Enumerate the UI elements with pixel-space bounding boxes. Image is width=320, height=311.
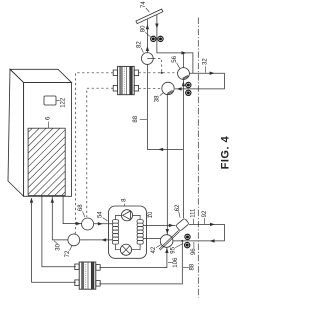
label 68 bbox=[78, 204, 85, 217]
label 6 bbox=[45, 116, 51, 128]
arrow into unit (upper left line) bbox=[98, 222, 103, 225]
dashed line: upper-left exchanger port to pump 72 bbox=[74, 73, 113, 234]
label 80 bbox=[141, 25, 151, 37]
label 54 bbox=[98, 211, 108, 221]
dashed line: upper-right exchanger port to pump 56 bbox=[139, 72, 178, 74]
arrow up into pump 56 bbox=[182, 81, 185, 86]
svg-text:30: 30 bbox=[56, 243, 62, 250]
label 56 bbox=[172, 55, 180, 68]
arrow left into pump 38 bbox=[177, 87, 182, 90]
arrow left on cross line bbox=[158, 148, 163, 151]
port stub lower-left (bottom hx) bbox=[75, 280, 79, 286]
svg-text:122: 122 bbox=[60, 97, 66, 108]
coil (right heat exchanger coil) bbox=[137, 220, 143, 244]
coil 54 (left heat exchanger coil) bbox=[112, 220, 118, 244]
valve pair 95 lower ring bbox=[185, 242, 190, 247]
wire: unit to pump 72 (lower left line) bbox=[80, 239, 113, 241]
mixing valve 42 bbox=[160, 235, 173, 248]
wire: supply loop to radiators bbox=[173, 224, 225, 241]
port stub lower-left bbox=[113, 85, 117, 91]
wire: unit supply to pipe 62 bbox=[143, 224, 175, 226]
label 88 (lower) bbox=[183, 263, 195, 270]
wire: lower exchanger to valve 42 bottom bbox=[99, 248, 166, 268]
port stub upper-left bbox=[113, 70, 117, 76]
label 38 bbox=[154, 93, 163, 102]
svg-text:38: 38 bbox=[154, 95, 160, 102]
plate heat exchanger (bottom) bbox=[79, 262, 96, 289]
wire: unit return to valve 42 bbox=[143, 237, 160, 239]
label 62 bbox=[175, 204, 181, 218]
wire: box to lower exchanger left-bottom port bbox=[32, 198, 76, 282]
unit internal piping bbox=[116, 215, 141, 249]
svg-text:88: 88 bbox=[133, 115, 139, 122]
svg-text:95: 95 bbox=[170, 246, 176, 253]
insulated pipe section 62 (tilted) bbox=[176, 218, 190, 231]
port stub upper-right bbox=[134, 70, 138, 76]
pump 68 bbox=[82, 218, 94, 230]
label 106 bbox=[168, 257, 179, 268]
arrow up into box (left) bbox=[30, 198, 33, 203]
building boundary (dash-dot) bbox=[197, 18, 199, 298]
valve pair 95-top-equiv lower ring bbox=[186, 90, 191, 95]
label 82 bbox=[137, 41, 144, 53]
dashed line: lower-left exchanger port to pump 68 bbox=[87, 88, 113, 217]
tank enclosure box (3D cabinet) bbox=[8, 69, 72, 196]
svg-text:62: 62 bbox=[175, 204, 181, 211]
svg-text:96: 96 bbox=[191, 248, 197, 255]
pump 72 bbox=[68, 234, 80, 246]
port stub lower-right (bottom hx) bbox=[96, 281, 100, 287]
pump 56 bbox=[178, 68, 190, 80]
arrow right on top header bbox=[182, 51, 187, 54]
dashed line: lower-right exchanger port to pump 38 bbox=[139, 87, 162, 89]
arrow down from collector bbox=[155, 24, 158, 29]
svg-text:10: 10 bbox=[148, 211, 154, 218]
svg-text:74: 74 bbox=[141, 1, 147, 8]
wire: pump 56 to load (supply top) bbox=[175, 73, 225, 89]
expansion valve (circle-X) bbox=[120, 244, 131, 255]
arrow into pump 68 bbox=[76, 222, 81, 225]
arrow up mid-leg bbox=[146, 46, 149, 51]
svg-text:92: 92 bbox=[202, 210, 208, 217]
arrow right crossing boundary bbox=[210, 72, 215, 75]
dashed line: valve 82 branch bbox=[153, 59, 163, 74]
arrow out of unit pointing left bbox=[101, 238, 106, 241]
wire: pump 56 down to pipe 62 top corner bbox=[182, 79, 184, 218]
label 95 bbox=[170, 243, 183, 253]
label 10 bbox=[146, 211, 154, 218]
wire: collector down-leg right bbox=[157, 15, 193, 74]
heat pump unit enclosure bbox=[109, 206, 147, 258]
valve pair 80 (left ring) bbox=[151, 36, 156, 41]
valve 82 on collector leg bbox=[141, 53, 153, 65]
wire: box down to pump 68 line bbox=[63, 196, 81, 223]
arrow left return bbox=[210, 239, 215, 242]
svg-text:88: 88 bbox=[189, 263, 195, 270]
svg-text:54: 54 bbox=[98, 211, 104, 218]
wire: valve-82 leg down and over to pump 56 bbox=[147, 64, 183, 149]
control unit 122 bbox=[44, 96, 56, 105]
svg-text:80: 80 bbox=[141, 25, 147, 32]
arrow right supply crossing boundary bbox=[210, 223, 215, 226]
port stub upper-left (bottom hx) bbox=[75, 264, 79, 270]
solar collector 74 (tilted bar) bbox=[136, 9, 163, 24]
svg-text:111: 111 bbox=[190, 208, 196, 218]
pipe through valve 42 (double diagonal) bbox=[159, 230, 180, 250]
svg-text:72: 72 bbox=[65, 250, 71, 257]
port stub upper-right (bottom hx) bbox=[96, 265, 100, 271]
svg-text:56: 56 bbox=[172, 55, 178, 62]
label 42 bbox=[151, 245, 161, 254]
label 32 bbox=[203, 58, 209, 73]
port stub lower-right bbox=[134, 85, 138, 91]
arrow down into valve 42 bbox=[166, 229, 169, 234]
svg-text:42: 42 bbox=[151, 246, 157, 253]
valve pair 95-top-equiv upper ring bbox=[186, 82, 191, 87]
svg-text:32: 32 bbox=[203, 58, 209, 65]
svg-text:FIG. 4: FIG. 4 bbox=[220, 135, 232, 169]
plate heat exchanger (top) bbox=[118, 66, 135, 94]
arrow right to pipe 62 bbox=[169, 224, 174, 227]
label 111 bbox=[190, 208, 196, 225]
svg-text:106: 106 bbox=[173, 257, 179, 268]
valve pair 95 upper ring bbox=[185, 234, 190, 239]
arrow up into box (right) bbox=[51, 198, 54, 203]
label 72 bbox=[65, 245, 72, 257]
wire: pump 56 top to header bbox=[183, 53, 185, 68]
wire: pump 38 down to mixing valve 42 bbox=[166, 95, 168, 235]
wire: pump 68 to heat-pump unit bbox=[94, 223, 113, 225]
wire: circle-72 line up into box bbox=[52, 196, 68, 240]
valve pair 80 (right ring) bbox=[158, 36, 163, 41]
wire: box to lower exchanger left-top port bbox=[42, 196, 76, 266]
arrow up to collector bbox=[146, 24, 149, 29]
hatched storage mass 6 bbox=[0, 126, 132, 196]
wire: return branch 88 down to lower exchanger bbox=[99, 240, 183, 284]
label 88 (upper) bbox=[133, 115, 147, 122]
label 74 bbox=[141, 1, 149, 12]
label 122 bbox=[56, 97, 66, 108]
label 30 bbox=[54, 241, 62, 251]
pump 38 bbox=[162, 82, 174, 94]
compressor 8 bbox=[121, 210, 132, 221]
label 8 bbox=[121, 198, 127, 206]
label 92 bbox=[202, 210, 208, 224]
label 96 bbox=[191, 242, 197, 255]
caption FIG. 4 bbox=[220, 135, 232, 169]
svg-text:68: 68 bbox=[78, 204, 84, 211]
arrow up into valve 42 from below bbox=[165, 248, 168, 253]
wire: collector down-leg left (to valve 82) bbox=[146, 19, 148, 52]
svg-text:82: 82 bbox=[137, 41, 143, 48]
